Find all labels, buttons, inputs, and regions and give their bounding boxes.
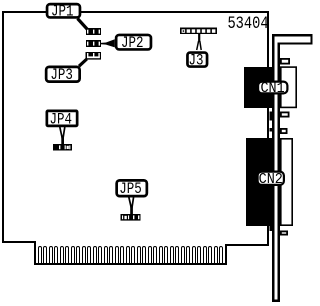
connector post above CN2 (270, 128, 273, 132)
pin header J3 (180, 28, 217, 35)
leader JP3 (79, 59, 87, 66)
label JP3 (46, 67, 80, 82)
svg-text:JP1: JP1 (51, 3, 73, 21)
connector CN2 body (246, 138, 275, 226)
leader JP5 (129, 197, 134, 215)
jumper block JP1 (86, 28, 101, 35)
jumper block JP5 (121, 214, 141, 221)
label JP1 (47, 4, 80, 17)
svg-text:J3: J3 (188, 52, 203, 70)
label J3 (187, 53, 207, 67)
jumper block JP3 (86, 52, 102, 60)
connector CN2 DB25 port (281, 139, 292, 225)
connector CN1 body (244, 67, 275, 108)
leader JP4 (60, 127, 65, 144)
card edge connector fingers (39, 247, 223, 265)
svg-text:JP2: JP2 (121, 35, 143, 53)
leader JP1 (78, 19, 88, 30)
leader J3 (197, 34, 202, 51)
connector post below CN1 (270, 112, 273, 121)
label CN1 (258, 82, 287, 94)
bracket screw tab below CN1 (281, 112, 289, 116)
svg-text:CN2: CN2 (259, 171, 283, 188)
svg-text:JP3: JP3 (50, 67, 72, 85)
connector CN1 DB9 port (281, 67, 296, 107)
board outline (3, 12, 268, 264)
jumper block JP4 (53, 144, 72, 151)
bracket screw tab below CN2 (281, 231, 287, 234)
connector post below CN2 (270, 226, 275, 231)
bracket screw tab above CN1 (281, 59, 289, 64)
svg-text:JP4: JP4 (49, 111, 71, 129)
label JP5 (117, 180, 147, 196)
svg-text:CN1: CN1 (260, 81, 284, 98)
label JP2 (116, 35, 151, 50)
svg-text:53404: 53404 (227, 14, 268, 34)
leader JP2 (101, 39, 115, 47)
jumper block JP2 (86, 40, 101, 47)
mounting bracket (272, 34, 313, 302)
bracket screw tab above CN2 (281, 129, 287, 133)
label CN2 (258, 172, 284, 185)
svg-text:JP5: JP5 (119, 181, 141, 199)
label JP4 (47, 111, 77, 126)
